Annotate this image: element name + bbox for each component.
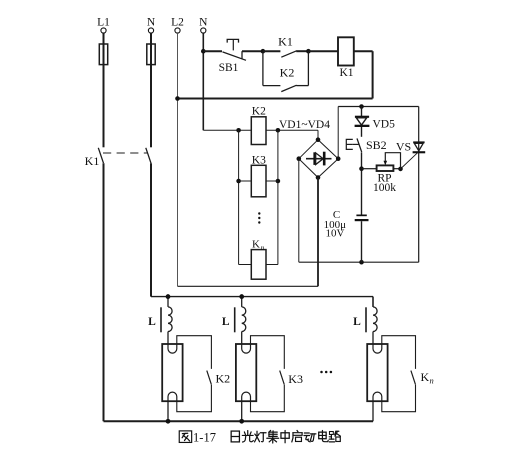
svg-text:L1: L1 [97,17,110,29]
svg-text:K: K [252,239,260,251]
svg-text:L2: L2 [171,17,184,29]
svg-text:L: L [353,316,361,328]
svg-text:VD1~VD4: VD1~VD4 [279,119,330,131]
svg-text:n: n [430,376,434,386]
svg-text:K3: K3 [252,155,266,167]
svg-text:VS: VS [396,140,411,154]
svg-text:SB2: SB2 [366,138,387,152]
svg-text:K3: K3 [288,372,303,386]
svg-text:L: L [222,316,230,328]
svg-text:K: K [421,370,430,384]
svg-text:N: N [199,17,208,29]
svg-text:10V: 10V [326,228,345,240]
svg-text:SB1: SB1 [219,62,239,74]
svg-text:K2: K2 [252,106,266,118]
svg-text:K1: K1 [278,35,293,49]
svg-text:K1: K1 [339,67,353,79]
svg-text:K2: K2 [280,66,295,80]
svg-text:100k: 100k [373,182,396,194]
svg-text:VD5: VD5 [373,119,396,131]
svg-text:K1: K1 [85,154,100,168]
svg-text:L: L [148,316,156,328]
svg-text:1-17: 1-17 [193,431,216,445]
svg-text:N: N [147,17,156,29]
svg-text:K2: K2 [216,372,231,386]
svg-text:n: n [261,243,265,252]
